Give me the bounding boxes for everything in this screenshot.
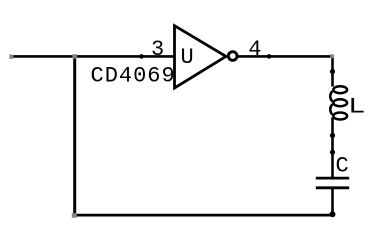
node junction dot bottom right [330,211,336,217]
inductor L coil loops [330,86,347,119]
node pin dot output [267,54,272,59]
wire output net to top-right corner [238,55,333,58]
node junction dot at capacitor top [330,150,335,155]
node handle top right corner [330,54,334,58]
node handle bottom left corner [72,213,77,218]
node handle tee junction [72,54,77,58]
wire bottom return [73,214,332,217]
svg-text:3: 3 [151,37,164,62]
svg-text:L: L [348,95,366,120]
svg-text:C: C [336,153,349,178]
node handle left wire end [9,55,13,59]
svg-text:4: 4 [248,37,261,62]
wire inductor to capacitor [331,118,334,179]
node pin dot input [139,54,144,59]
wire left vertical branch [73,56,76,215]
svg-text:U: U [181,45,194,70]
svg-text:CD4069: CD4069 [91,63,176,88]
wire right vertical to inductor [331,55,334,86]
node junction dot at inductor bottom [330,133,335,138]
wire input net from left edge to inverter input [10,55,175,58]
wire capacitor to bottom return [331,188,334,215]
node junction dot at inductor top [330,69,335,74]
op-amp U (CD4069 inverter triangle) [175,26,227,88]
inverter output bubble [228,52,237,61]
capacitor C plates [316,177,349,180]
